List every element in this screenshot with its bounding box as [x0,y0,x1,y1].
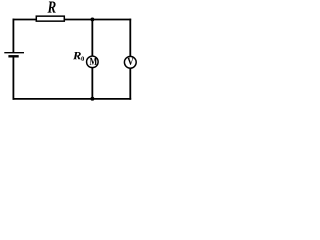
node junction top [90,17,94,21]
battery short plate (-) [8,55,18,57]
label R0 : R [73,52,81,59]
wire top [13,19,132,21]
battery long plate (+) [4,52,24,54]
motor letter M [90,58,97,65]
label R0 : subscript 0 [81,56,84,60]
voltmeter letter V [127,58,133,65]
node junction bottom [90,97,94,101]
wire motor branch [91,19,93,100]
voltmeter V circle [124,56,136,68]
motor M circle [87,56,99,68]
label R [47,2,55,13]
wire left upper (to battery) [12,19,14,53]
wire bottom [13,98,132,100]
wire left lower (from battery) [12,56,14,99]
wire right [129,19,131,100]
resistor R [36,16,64,21]
